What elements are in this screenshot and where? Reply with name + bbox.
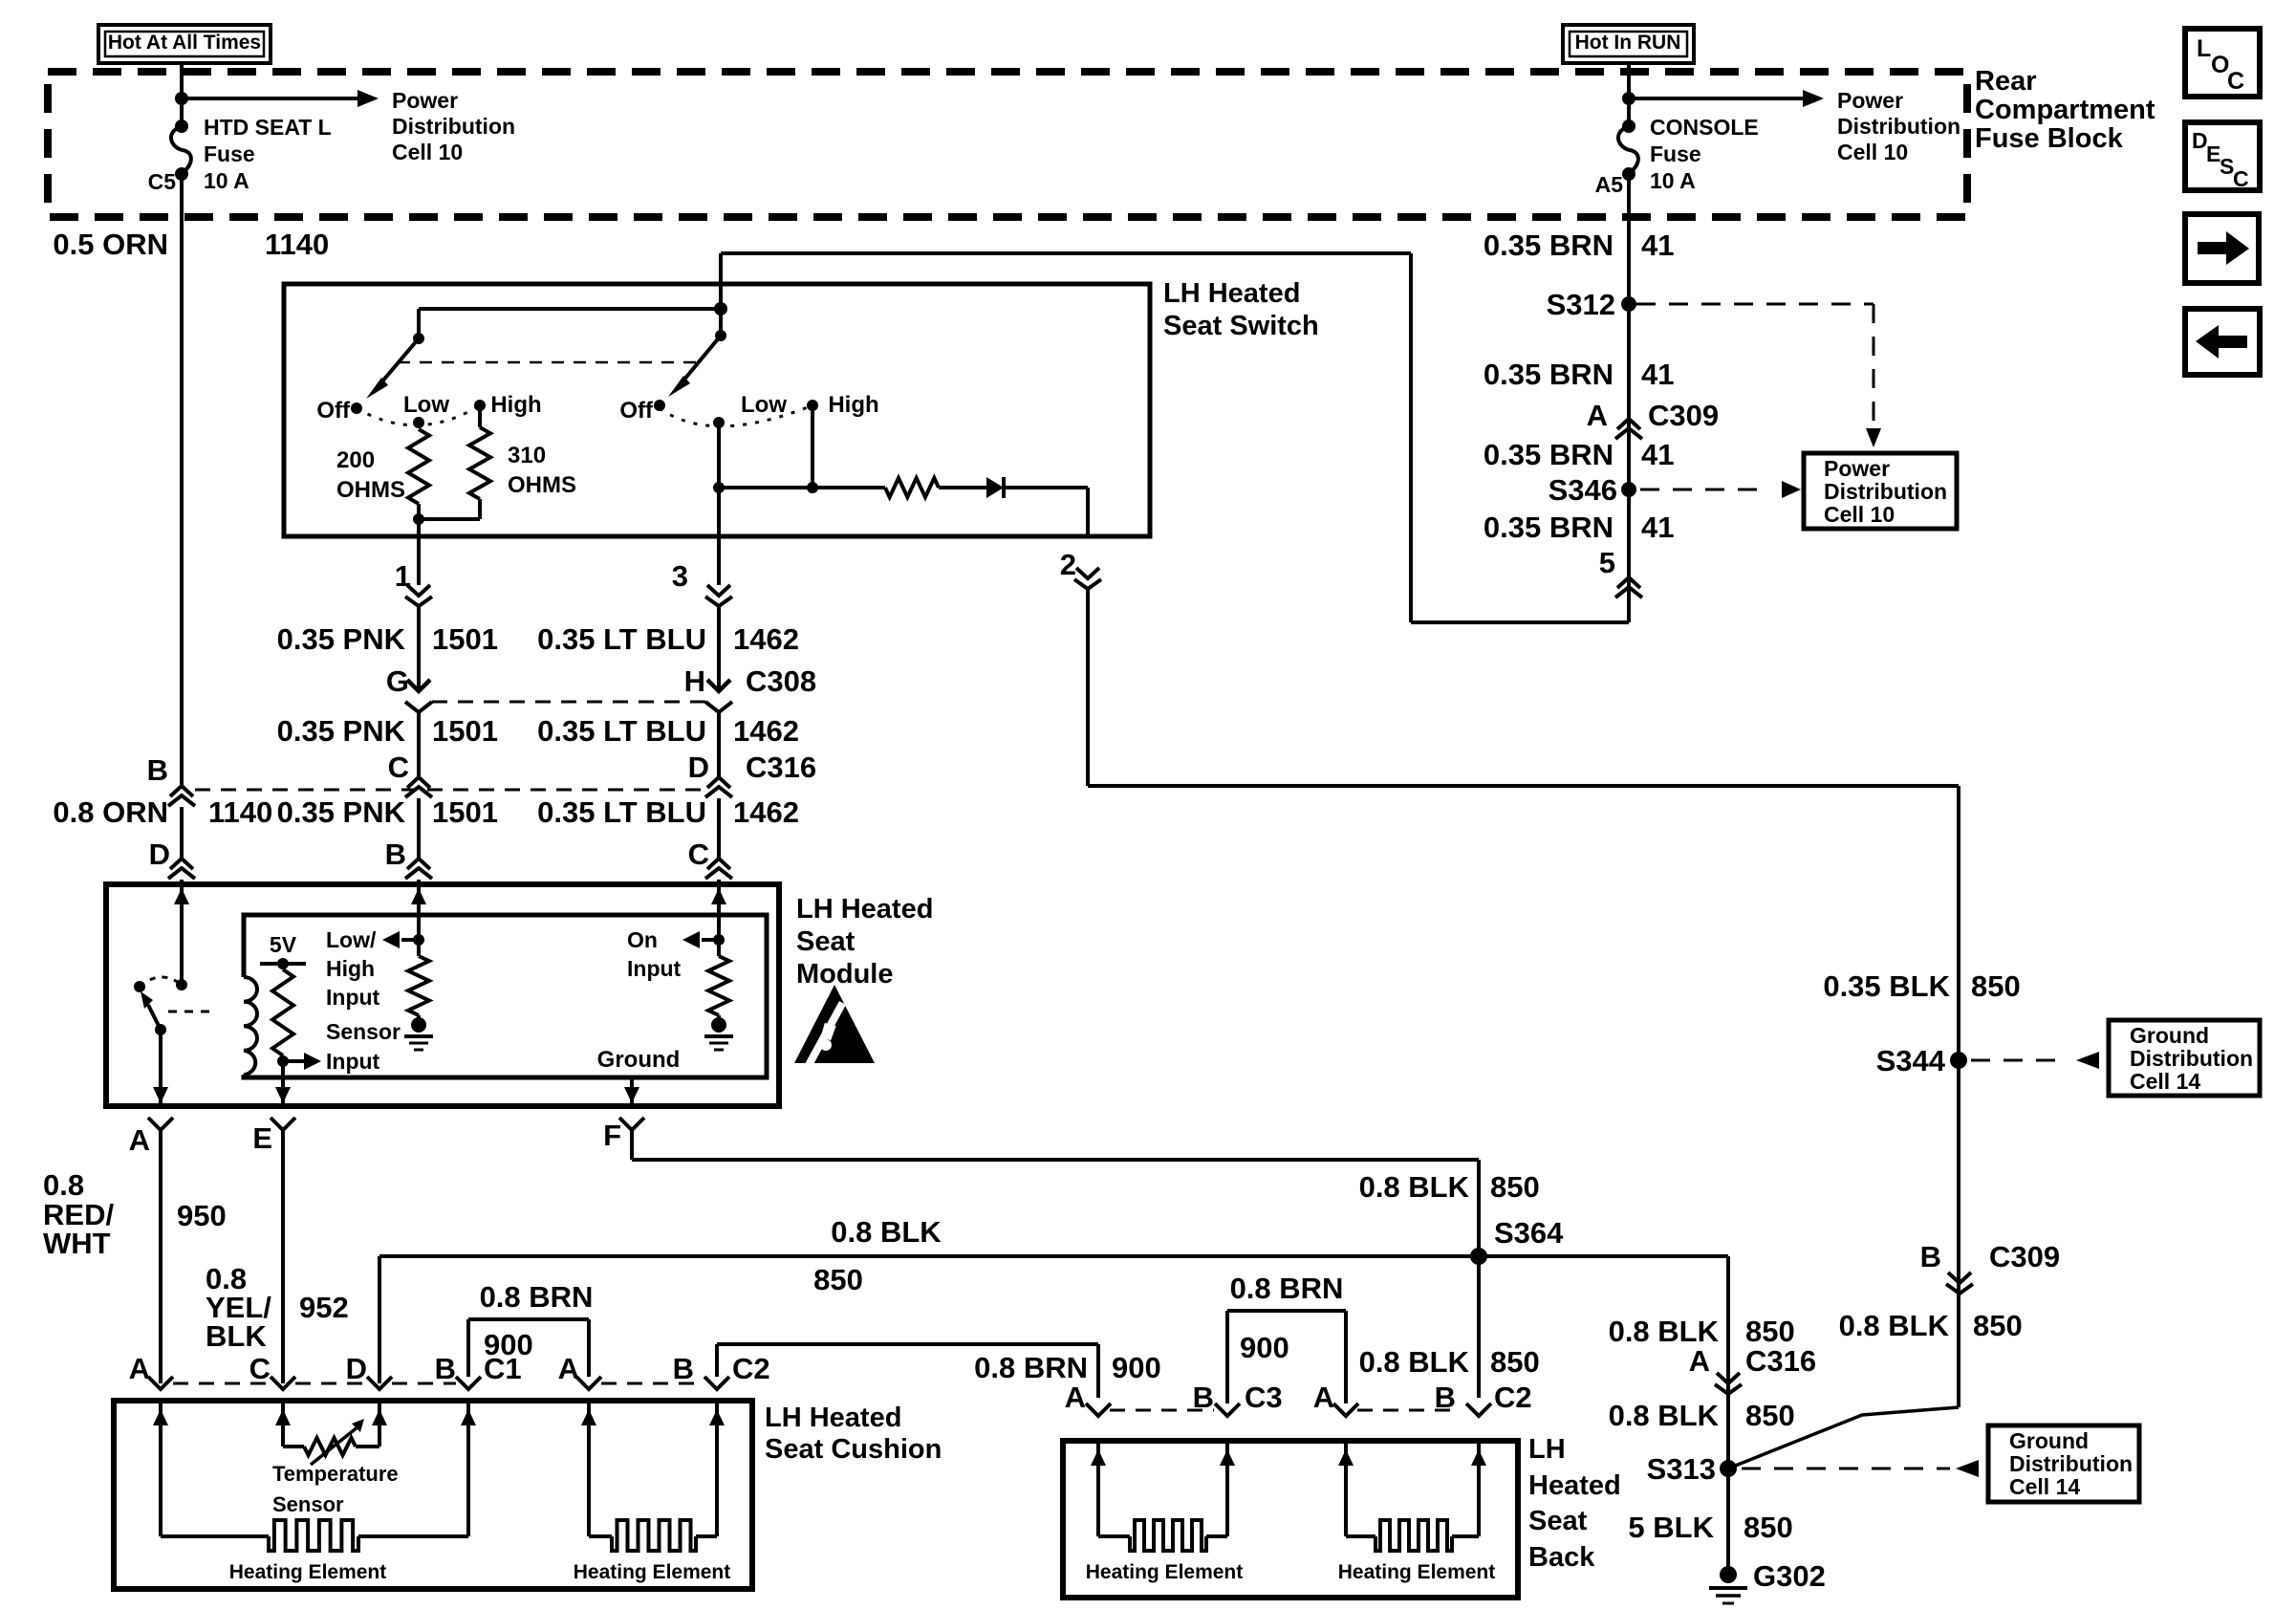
wire from Hot In RUN into fuse block <box>1627 63 1631 126</box>
module resistor on B <box>417 940 421 956</box>
wire 0.35 PNK into module <box>417 880 421 940</box>
module pin F arrow (bottom) <box>624 1087 639 1103</box>
wire switch pin 1 <box>417 519 421 536</box>
dashed reference S346 to power distribution <box>1640 489 1768 491</box>
svg-text:S312: S312 <box>1547 288 1615 321</box>
wire resistor to diode <box>939 486 986 490</box>
svg-text:LH: LH <box>1528 1434 1566 1465</box>
wire to pin E <box>281 1055 285 1103</box>
arrow to power distribution <box>357 90 379 107</box>
ground inside module (B) <box>417 1015 421 1023</box>
svg-text:Heating Element: Heating Element <box>574 1561 731 1583</box>
svg-text:Compartment: Compartment <box>1975 95 2155 125</box>
svg-text:A: A <box>1065 1381 1086 1414</box>
svg-text:BLK: BLK <box>206 1319 267 1353</box>
node at right feed <box>1622 92 1635 105</box>
svg-text:High: High <box>828 392 878 418</box>
svg-text:Distribution: Distribution <box>392 114 515 139</box>
svg-text:S313: S313 <box>1647 1452 1716 1486</box>
low/high input tap <box>413 934 424 946</box>
svg-text:1140: 1140 <box>208 795 272 829</box>
svg-text:High: High <box>326 956 375 981</box>
svg-text:Distribution: Distribution <box>2009 1451 2133 1476</box>
svg-text:900: 900 <box>484 1328 533 1361</box>
svg-text:41: 41 <box>1641 438 1674 471</box>
svg-text:LH Heated: LH Heated <box>796 894 933 925</box>
arrow into power distribution box <box>1866 428 1881 447</box>
heating element 2 <box>612 1520 696 1551</box>
svg-text:S346: S346 <box>1549 473 1617 507</box>
svg-text:CONSOLE: CONSOLE <box>1650 115 1759 140</box>
arrow S346 into power distribution box <box>1782 481 1801 498</box>
svg-text:900: 900 <box>1112 1351 1161 1384</box>
svg-text:Module: Module <box>796 959 894 990</box>
ground inside module (C) <box>717 1015 721 1023</box>
svg-text:S344: S344 <box>1876 1044 1946 1077</box>
svg-text:HTD SEAT L: HTD SEAT L <box>204 115 332 140</box>
svg-text:310: 310 <box>508 443 546 468</box>
svg-text:Power: Power <box>1837 88 1903 113</box>
svg-text:C: C <box>2233 166 2249 191</box>
wire joining resistors <box>419 517 480 521</box>
wire armature to pin A <box>159 1030 162 1103</box>
svg-text:Ground: Ground <box>2130 1023 2209 1048</box>
relay coil <box>244 977 257 1075</box>
svg-text:Rear: Rear <box>1975 66 2037 97</box>
back wire B2 <box>1452 1534 1479 1538</box>
svg-text:Distribution: Distribution <box>1837 114 1960 139</box>
module inner box <box>244 915 767 1077</box>
resistor 200 OHMS <box>408 429 429 504</box>
svg-text:C: C <box>688 838 709 871</box>
dashed connector C308 <box>432 701 709 704</box>
ground distribution cell 14 box (upper) <box>2109 1020 2260 1096</box>
svg-text:WHT: WHT <box>43 1227 111 1260</box>
svg-text:A: A <box>1689 1344 1710 1378</box>
splice S344 <box>1950 1052 1967 1069</box>
svg-text:Cell 14: Cell 14 <box>2009 1474 2080 1499</box>
svg-text:0.35 BRN: 0.35 BRN <box>1484 438 1614 471</box>
svg-text:Fuse: Fuse <box>204 141 255 166</box>
on input tap <box>713 934 725 946</box>
ground bus left of S364 <box>379 1254 1479 1258</box>
svg-text:Temperature: Temperature <box>272 1462 399 1486</box>
left switch arm <box>377 338 419 388</box>
svg-text:C2: C2 <box>1494 1381 1532 1414</box>
svg-text:LH Heated: LH Heated <box>765 1403 901 1433</box>
DESC box <box>2185 122 2260 190</box>
svg-text:Off: Off <box>619 398 654 424</box>
svg-text:Power: Power <box>1824 456 1890 481</box>
svg-text:850: 850 <box>1490 1170 1540 1204</box>
svg-text:0.8 BRN: 0.8 BRN <box>974 1351 1088 1384</box>
wire 0.5 ORN 1140 from fuse C5 <box>180 174 184 786</box>
splice S313 <box>1720 1460 1737 1477</box>
svg-text:1462: 1462 <box>733 795 799 829</box>
wire seat switch feed loop <box>721 251 1411 255</box>
switch mechanical link <box>398 361 699 364</box>
svg-text:Sensor: Sensor <box>272 1492 344 1516</box>
svg-text:850: 850 <box>1490 1345 1540 1379</box>
wire cushion B2 to back A <box>715 1344 719 1377</box>
module pin F <box>619 1118 644 1130</box>
svg-text:G: G <box>386 664 409 698</box>
svg-text:200: 200 <box>336 447 375 473</box>
left switch Off contact <box>351 402 362 414</box>
wire 0.8 ORN into module <box>180 880 184 985</box>
svg-text:Ground: Ground <box>2009 1428 2089 1453</box>
splice S364 <box>1470 1248 1487 1265</box>
dashed reference S313 to ground distribution <box>1742 1468 1950 1470</box>
svg-text:C2: C2 <box>732 1352 770 1385</box>
wire C309 to S313 <box>1728 1407 1959 1469</box>
wire diode to pin 2 <box>1004 486 1088 490</box>
svg-text:B: B <box>435 1352 456 1385</box>
connector chevrons pin 2 <box>1076 568 1099 578</box>
ground distribution cell 14 box (lower) <box>1988 1425 2139 1502</box>
connector chevrons pin 1 <box>417 536 421 585</box>
splice S346 <box>1621 482 1636 497</box>
svg-text:OHMS: OHMS <box>336 477 405 503</box>
flag Hot In RUN <box>1563 25 1694 63</box>
module resistor on C <box>717 940 721 956</box>
ground bus right of S364 <box>1479 1254 1728 1258</box>
svg-text:0.8 ORN: 0.8 ORN <box>53 795 168 829</box>
svg-text:B: B <box>673 1352 694 1385</box>
svg-text:F: F <box>603 1119 621 1152</box>
svg-text:2: 2 <box>1060 548 1076 581</box>
svg-text:A: A <box>558 1352 579 1385</box>
svg-text:Cell 10: Cell 10 <box>1824 502 1895 527</box>
module pin E <box>271 1118 295 1130</box>
wire 2 to ground stack <box>1088 784 1959 788</box>
svg-text:B: B <box>385 838 406 871</box>
loop 0.8 BRN 900 (back) <box>1225 1311 1229 1403</box>
wire output node to resistor <box>719 486 885 490</box>
svg-text:Back: Back <box>1528 1542 1595 1573</box>
relay link to coil <box>168 1011 215 1013</box>
LH heated seat module box <box>106 884 779 1106</box>
wire 0.35 BRN 41 from fuse A5 <box>1627 174 1631 622</box>
module pin E arrow (bottom) <box>275 1087 291 1103</box>
svg-text:0.35 PNK: 0.35 PNK <box>277 795 406 829</box>
svg-text:Distribution: Distribution <box>2130 1046 2253 1071</box>
LOC box <box>2185 29 2260 97</box>
relay armature <box>155 1024 166 1035</box>
svg-text:1140: 1140 <box>265 228 329 261</box>
back wire A2 <box>1338 1449 1354 1466</box>
svg-text:Distribution: Distribution <box>1824 479 1947 504</box>
module pin D arrow <box>174 888 189 904</box>
svg-text:0.8 BLK: 0.8 BLK <box>831 1215 942 1249</box>
arrow S313 to ground distribution box <box>1956 1460 1979 1477</box>
svg-text:952: 952 <box>299 1291 349 1324</box>
svg-text:5 BLK: 5 BLK <box>1628 1511 1714 1544</box>
heating element 1 <box>269 1520 358 1551</box>
svg-text:900: 900 <box>1240 1331 1289 1364</box>
dashed connector C316 <box>195 789 707 792</box>
svg-text:1501: 1501 <box>432 622 498 656</box>
wire switch pin 3 <box>717 488 721 536</box>
module sensor resistor <box>281 964 285 969</box>
svg-text:5V: 5V <box>270 932 297 957</box>
svg-text:LH Heated: LH Heated <box>1163 278 1300 309</box>
svg-text:A: A <box>129 1123 150 1157</box>
dashed connector row (back) <box>1110 1409 1214 1412</box>
wire switch feed down <box>719 253 723 309</box>
svg-text:10 A: 10 A <box>204 168 249 193</box>
left switch pivot <box>413 333 424 344</box>
svg-text:C316: C316 <box>746 751 816 784</box>
right switch pole wire <box>719 309 723 336</box>
rear compartment fuse block (dashed box) <box>48 72 1967 217</box>
wire High to output node <box>811 405 814 488</box>
flag Hot At All Times <box>98 25 271 63</box>
svg-text:On: On <box>627 927 658 952</box>
svg-text:850: 850 <box>1745 1399 1795 1432</box>
svg-text:C: C <box>249 1352 271 1385</box>
svg-text:D: D <box>149 838 170 871</box>
LH heated seat back box <box>1063 1441 1518 1598</box>
svg-text:L: L <box>2197 35 2211 62</box>
svg-text:A: A <box>1587 399 1608 432</box>
svg-text:D: D <box>688 751 709 784</box>
wire 0.35 LT BLU (3) <box>717 798 721 859</box>
dashed connector row (cushion) <box>173 1382 271 1385</box>
wire Low to output node <box>717 423 721 488</box>
wire module ground to pin F <box>630 1077 634 1103</box>
diode <box>986 477 1004 498</box>
left switch travel arc <box>357 405 480 425</box>
cushion wire B2 <box>696 1534 717 1538</box>
right switch pivot <box>715 330 726 341</box>
loop 0.8 BRN 900 (cushion) <box>466 1319 470 1377</box>
svg-text:High: High <box>490 392 541 418</box>
dashed reference S344 to ground distribution <box>1971 1059 2065 1062</box>
wire 0.35 PNK (2) <box>417 712 421 777</box>
svg-text:1462: 1462 <box>733 714 799 748</box>
sensor input arrow <box>283 1059 304 1063</box>
right switch Off contact <box>654 400 665 411</box>
svg-text:0.35 BRN: 0.35 BRN <box>1484 358 1614 391</box>
svg-text:41: 41 <box>1641 228 1674 262</box>
svg-text:OHMS: OHMS <box>508 472 576 498</box>
svg-text:41: 41 <box>1641 511 1674 544</box>
svg-text:B: B <box>1920 1240 1941 1273</box>
svg-text:950: 950 <box>177 1199 227 1232</box>
wire to left switch pole <box>419 307 721 311</box>
wire branch to power distribution (right) <box>1629 97 1803 100</box>
svg-text:0.35 BLK: 0.35 BLK <box>1823 969 1950 1003</box>
svg-text:850: 850 <box>1971 969 2021 1003</box>
svg-text:Hot At All Times: Hot At All Times <box>108 32 261 54</box>
svg-text:Heating Element: Heating Element <box>229 1561 387 1583</box>
arrow S344 to ground distribution box <box>2076 1052 2099 1069</box>
svg-text:G302: G302 <box>1753 1559 1826 1593</box>
right switch arm <box>679 336 721 386</box>
svg-text:Seat Switch: Seat Switch <box>1163 311 1319 341</box>
svg-text:Heating Element: Heating Element <box>1086 1561 1244 1583</box>
wire F ground run <box>632 1158 1479 1162</box>
back wire B <box>1206 1534 1227 1538</box>
svg-text:Cell 10: Cell 10 <box>392 140 463 164</box>
svg-text:C3: C3 <box>1245 1381 1283 1414</box>
module pin A arrow (bottom) <box>153 1087 168 1103</box>
heating element 3 <box>1130 1520 1206 1551</box>
svg-text:S364: S364 <box>1494 1216 1564 1250</box>
svg-text:0.8 BRN: 0.8 BRN <box>480 1280 594 1314</box>
svg-text:0.8 BRN: 0.8 BRN <box>1230 1272 1344 1305</box>
svg-text:Fuse: Fuse <box>1650 141 1701 166</box>
svg-text:Low/: Low/ <box>326 927 377 952</box>
svg-text:0.5 ORN: 0.5 ORN <box>53 228 168 261</box>
LH heated seat switch box <box>284 284 1150 536</box>
svg-text:C: C <box>388 751 409 784</box>
svg-text:0.35 LT BLU: 0.35 LT BLU <box>537 622 706 656</box>
ESD symbol <box>794 985 875 1063</box>
svg-text:850: 850 <box>1745 1315 1795 1348</box>
wire 0.35 PNK (3) <box>417 798 421 859</box>
svg-text:0.35 BRN: 0.35 BRN <box>1484 228 1614 262</box>
relay travel arc <box>140 977 182 987</box>
svg-text:850: 850 <box>813 1263 863 1296</box>
5V node <box>260 962 306 966</box>
cushion wire B <box>358 1534 468 1538</box>
svg-text:Input: Input <box>326 985 380 1010</box>
heating element 4 <box>1375 1520 1452 1551</box>
right switch travel arc <box>660 405 812 426</box>
back wire A <box>1091 1449 1106 1466</box>
arrow to power distribution (right) <box>1803 90 1824 107</box>
svg-text:Cell 10: Cell 10 <box>1837 140 1908 164</box>
svg-text:Hot In RUN: Hot In RUN <box>1575 32 1681 54</box>
svg-text:Off: Off <box>316 398 351 424</box>
dashed reference S312 to power distribution <box>1636 303 1874 306</box>
svg-text:0.8 BLK: 0.8 BLK <box>1839 1309 1950 1342</box>
relay contact (D) <box>176 979 187 990</box>
svg-text:D: D <box>346 1352 367 1385</box>
fuse CONSOLE 10A <box>1622 120 1635 133</box>
ground G302 <box>1720 1566 1737 1583</box>
svg-text:0.8 BLK: 0.8 BLK <box>1609 1315 1720 1348</box>
wire from Hot At All Times into fuse block <box>180 63 184 126</box>
svg-text:Seat: Seat <box>796 926 856 957</box>
svg-text:C308: C308 <box>746 664 816 698</box>
svg-text:0.35 LT BLU: 0.35 LT BLU <box>537 795 706 829</box>
back arrow box <box>2185 309 2260 375</box>
svg-text:1501: 1501 <box>432 714 498 748</box>
svg-text:A: A <box>1313 1381 1334 1414</box>
wire branch to power distribution <box>182 97 357 100</box>
cushion wire A <box>153 1409 168 1425</box>
svg-text:C5: C5 <box>148 169 177 194</box>
cushion wire D (sensor) <box>378 1401 381 1447</box>
svg-text:B: B <box>147 753 168 787</box>
sensor input node <box>277 1055 289 1067</box>
svg-text:Heated: Heated <box>1528 1470 1621 1501</box>
module pin B arrow <box>411 888 426 904</box>
svg-text:41: 41 <box>1641 358 1674 391</box>
relay NC contact <box>134 981 145 992</box>
cushion wire A2 <box>581 1409 596 1425</box>
resistor in switch <box>885 478 939 497</box>
svg-text:3: 3 <box>672 559 688 593</box>
svg-text:0.8: 0.8 <box>43 1168 84 1202</box>
svg-text:5: 5 <box>1599 546 1615 579</box>
temperature sensor arrow <box>311 1426 358 1465</box>
forward arrow box <box>2185 214 2259 283</box>
svg-text:C: C <box>2227 68 2244 95</box>
svg-text:0.35 LT BLU: 0.35 LT BLU <box>537 714 706 748</box>
svg-text:10 A: 10 A <box>1650 168 1696 193</box>
svg-text:Seat Cushion: Seat Cushion <box>765 1434 942 1465</box>
svg-text:Ground: Ground <box>597 1047 681 1073</box>
svg-text:C309: C309 <box>1989 1240 2060 1273</box>
node at left feed <box>175 92 188 105</box>
svg-text:850: 850 <box>1744 1511 1793 1544</box>
svg-text:E: E <box>252 1121 272 1155</box>
svg-text:1501: 1501 <box>432 795 498 829</box>
module pin C arrow <box>711 888 726 904</box>
wire 0.8 ORN 1140 <box>180 807 184 859</box>
svg-text:Heating Element: Heating Element <box>1338 1561 1496 1583</box>
svg-text:Input: Input <box>326 1049 380 1074</box>
svg-text:C309: C309 <box>1648 399 1719 432</box>
svg-text:0.35 BRN: 0.35 BRN <box>1484 511 1614 544</box>
svg-text:1462: 1462 <box>733 622 799 656</box>
temperature sensor <box>304 1438 356 1455</box>
fuse HTD SEAT L 10A <box>175 120 188 133</box>
svg-text:850: 850 <box>1973 1309 2023 1342</box>
svg-text:Input: Input <box>627 956 682 981</box>
LH heated seat cushion box <box>114 1401 752 1589</box>
svg-text:0.8 BLK: 0.8 BLK <box>1359 1345 1470 1379</box>
svg-text:Low: Low <box>741 392 787 418</box>
svg-text:Low: Low <box>403 392 449 418</box>
svg-text:Seat: Seat <box>1528 1506 1588 1536</box>
svg-text:0.8 BLK: 0.8 BLK <box>1609 1399 1720 1432</box>
svg-text:A5: A5 <box>1595 172 1624 197</box>
svg-text:0.35 PNK: 0.35 PNK <box>277 622 406 656</box>
svg-text:C316: C316 <box>1745 1344 1816 1378</box>
svg-text:0.35 PNK: 0.35 PNK <box>277 714 406 748</box>
svg-text:A: A <box>129 1352 150 1385</box>
splice S312 <box>1621 296 1636 312</box>
wire 0.35 LT BLU into module <box>717 880 721 940</box>
wire 0.35 LT BLU (2) <box>717 712 721 777</box>
module pin A <box>148 1118 173 1130</box>
svg-text:Fuse Block: Fuse Block <box>1975 123 2124 154</box>
cushion wire C (sensor) <box>275 1409 291 1425</box>
svg-text:H: H <box>684 664 705 698</box>
svg-text:Cell 14: Cell 14 <box>2130 1069 2200 1094</box>
resistor 310 OHMS <box>478 405 482 427</box>
svg-text:Power: Power <box>392 88 458 113</box>
power distribution cell 10 box <box>1804 453 1957 529</box>
connector chevrons pin 3 <box>717 536 721 585</box>
svg-text:0.8 BLK: 0.8 BLK <box>1359 1170 1470 1204</box>
svg-text:Sensor: Sensor <box>326 1019 401 1044</box>
